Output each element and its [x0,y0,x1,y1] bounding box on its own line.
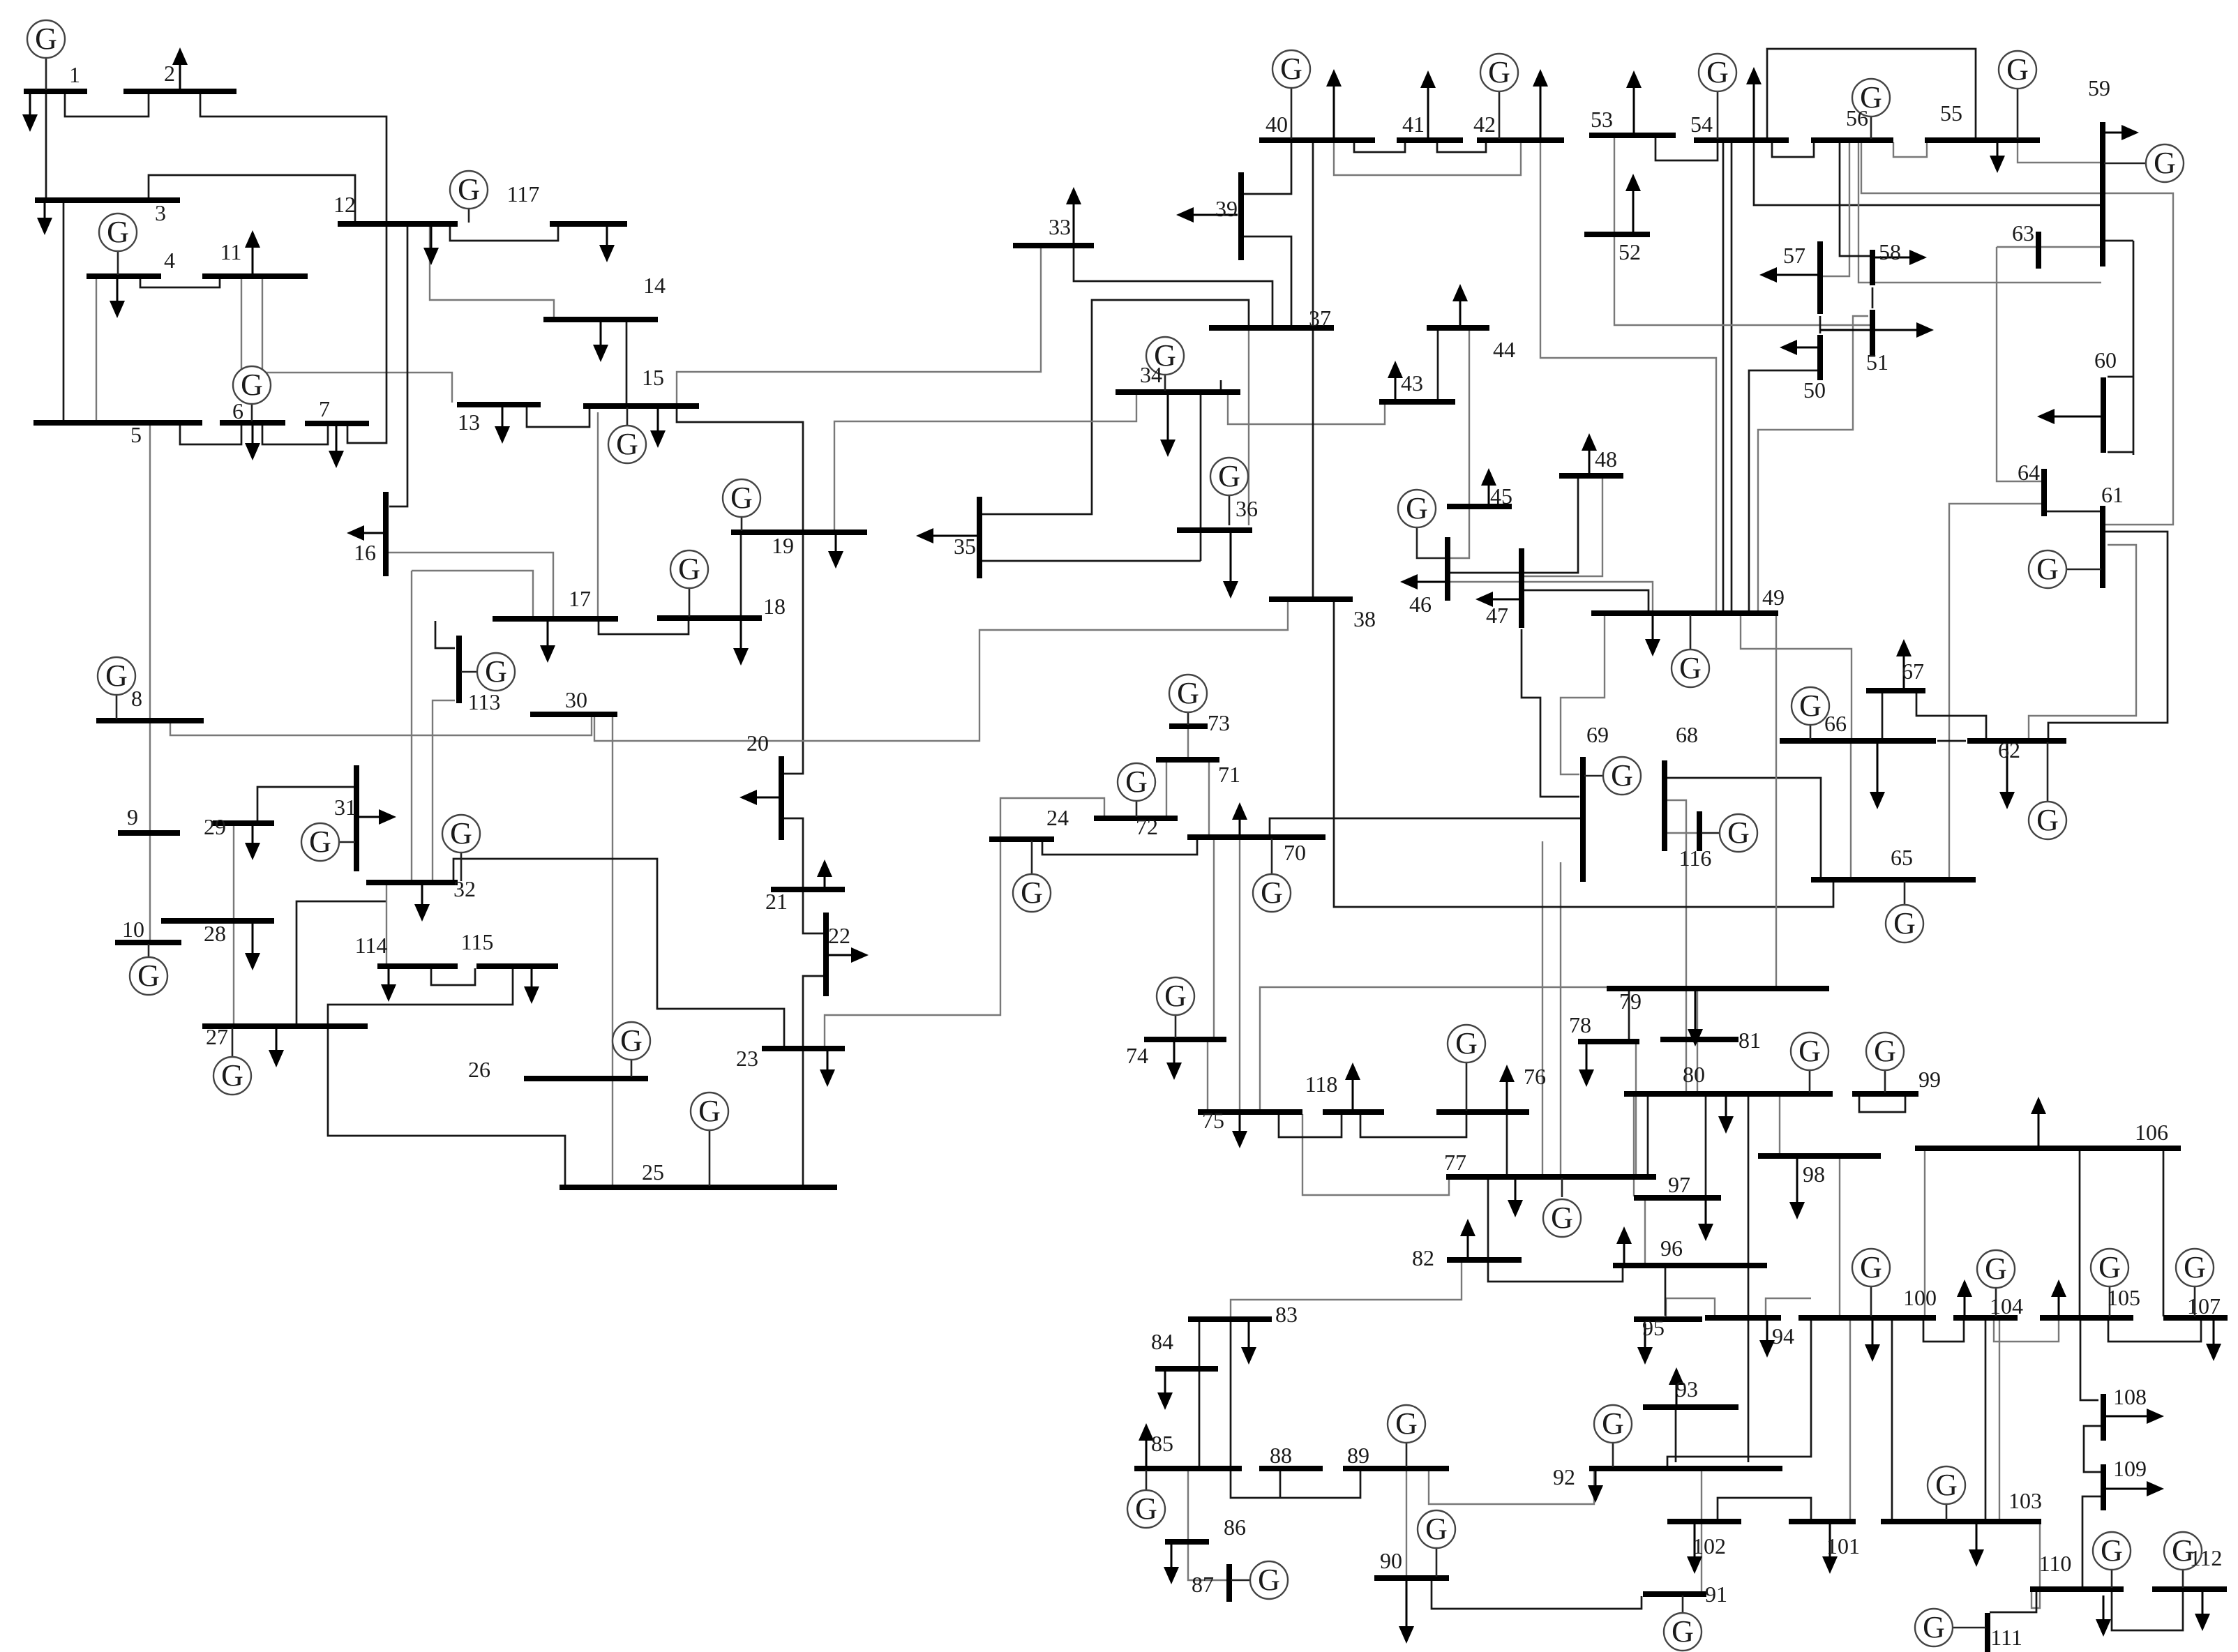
bus 113 [456,636,462,703]
wire 34-36 [1200,394,1202,561]
svg-text:G: G [1985,1252,2007,1286]
bus 65 [1811,877,1976,883]
generator G111 [1915,1609,1985,1646]
generator G25 [691,1092,728,1186]
svg-text:74: 74 [1126,1043,1148,1068]
wire 82-96 [1488,1263,1623,1282]
svg-text:53: 53 [1591,107,1613,132]
wire 56-57 [1822,142,1849,276]
wire 105-106 [2079,1150,2081,1316]
load arrow bus 51 [1820,329,1916,331]
wire 48-49 [1524,477,1602,576]
bus 62 [1967,738,2066,744]
svg-text:G: G [2184,1250,2206,1284]
generator G15 [608,407,646,463]
load arrow bus 77 [1515,1179,1517,1200]
bus 117 [550,221,627,227]
load arrow bus 6 [252,425,254,443]
wire 34-37b [1220,380,1222,392]
svg-text:69: 69 [1586,722,1609,747]
wire 95-96 [1665,1268,1667,1316]
generator G85 [1127,1470,1165,1528]
wire 78-79 [1628,991,1630,1040]
svg-text:60: 60 [2094,347,2117,373]
bus 17 [493,616,618,622]
generator G65 [1886,881,1923,943]
wire 70-75 [1239,839,1240,1111]
bus 115 [476,963,558,969]
wire 56-59a [1861,142,2173,525]
wire 44-45 [1469,330,1470,505]
load arrow bus 109 [2106,1488,2147,1490]
svg-text:G: G [1258,1563,1280,1597]
wire 105-108 [2080,1320,2098,1400]
svg-text:71: 71 [1218,762,1240,787]
svg-text:G: G [1874,1034,1896,1068]
wire 105-107 [2108,1320,2201,1342]
wire 25-27 [328,1028,565,1186]
wire 1-3 [45,93,47,199]
wire 68-81 [1666,800,1686,1037]
bus 86 [1165,1539,1209,1545]
wire 100-106 [1924,1150,1925,1316]
generator G36 [1210,458,1248,525]
svg-text:G: G [1455,1026,1478,1060]
generator G107 [2176,1249,2214,1316]
wire 17-x [412,571,533,617]
svg-text:88: 88 [1270,1443,1292,1468]
wire 61-62b [2048,532,2168,739]
bus 105 [2040,1315,2133,1321]
svg-text:10: 10 [122,917,144,942]
load arrow bus 36 [1230,532,1232,581]
svg-text:G: G [1125,765,1148,799]
load arrow bus 1 [29,93,31,114]
bus 66 [1780,738,1936,744]
bus 92 [1589,1466,1782,1471]
load arrow bus 46 [1418,581,1445,583]
load arrow bus 95 [1644,1323,1646,1347]
load arrow bus 92 [1595,1471,1597,1485]
svg-text:90: 90 [1380,1548,1402,1573]
svg-text:20: 20 [746,730,769,756]
wire 63-59 [1997,246,2101,248]
generator G76 [1448,1025,1485,1111]
svg-text:G: G [1164,979,1187,1013]
svg-text:116: 116 [1679,846,1712,871]
wire 2-12 [200,93,386,223]
svg-text:40: 40 [1266,112,1288,137]
bus 74 [1144,1037,1226,1042]
bus 116 [1697,811,1702,851]
load arrow bus 40 [1333,87,1335,138]
generator G32 [442,815,480,881]
bus 99 [1852,1091,1918,1097]
wire 17-113 [435,621,455,648]
wire 92-100 [1667,1320,1811,1466]
wire 49-51 [1758,316,1868,610]
load arrow bus 104 [1964,1297,1966,1316]
wire 63-64 [1997,247,2041,481]
load arrow bus 13 [502,406,504,426]
wire 33-37 [1074,248,1272,325]
bus 78 [1578,1039,1639,1044]
svg-text:2: 2 [164,61,175,86]
bus 108 [2101,1394,2106,1441]
bus 22 [823,913,829,996]
bus 15 [583,403,699,409]
svg-text:99: 99 [1918,1067,1941,1092]
bus 14 [543,317,658,322]
svg-text:G: G [678,552,700,586]
svg-text:52: 52 [1619,239,1641,264]
wire 82-83 [1231,1263,1462,1318]
wire 36-37 [1248,330,1249,525]
svg-text:98: 98 [1803,1162,1825,1187]
wire 62-66 [1937,740,1966,742]
wire 21-22 [803,892,824,933]
svg-text:81: 81 [1738,1028,1761,1053]
wire 37-39 [1242,236,1291,326]
svg-text:24: 24 [1046,805,1069,830]
wire 57-50 [1819,316,1822,333]
svg-text:G: G [1860,1250,1882,1284]
load arrow bus 48 [1589,451,1591,474]
bus 76 [1436,1109,1529,1115]
svg-text:102: 102 [1692,1533,1726,1559]
bus 7 [305,421,369,426]
bus 28 [161,918,274,924]
svg-text:109: 109 [2113,1456,2147,1481]
load arrow bus 82 [1467,1236,1469,1259]
load arrow bus 118 [1352,1080,1354,1110]
generator G26 [613,1022,650,1077]
svg-text:G: G [450,816,472,850]
wire 3-5 [63,202,65,421]
svg-text:39: 39 [1215,196,1238,221]
svg-text:25: 25 [642,1159,664,1185]
wire 46-49 [1449,582,1653,612]
wire 26-30 [612,716,613,1186]
svg-text:3: 3 [155,200,166,225]
bus 67 [1866,688,1925,693]
svg-text:G: G [105,659,128,693]
svg-text:29: 29 [204,814,226,839]
svg-text:27: 27 [206,1024,228,1049]
svg-text:22: 22 [828,923,850,948]
wire 17-18 [599,620,689,634]
generator G49 [1672,615,1709,687]
wire 90-91 [1432,1580,1642,1609]
wire 104-103b [1999,1320,2000,1520]
generator G12 [450,171,488,223]
bus 85 [1134,1466,1242,1471]
wire 114-115 [431,968,475,985]
generator G31 [301,823,355,861]
bus 95 [1634,1316,1702,1322]
generator G55 [1999,51,2036,139]
wire 83-88 [1231,1321,1360,1498]
bus 51 [1870,310,1875,356]
svg-text:G: G [485,654,507,689]
svg-text:114: 114 [355,933,388,958]
wire 106-107 [2163,1150,2165,1316]
wire 49-75 [1260,615,1776,1111]
wire 84-85 [1199,1371,1201,1466]
wire 69-77b [1560,862,1561,1176]
wire 12-117 [450,226,558,241]
wire 113-32 [433,700,455,881]
bus 107 [2163,1315,2228,1321]
bus 36 [1177,527,1252,533]
load arrow bus 28 [252,923,254,953]
svg-text:65: 65 [1891,845,1913,870]
bus 43 [1379,399,1455,405]
wire 100-101 [1849,1320,1851,1520]
load arrow bus 15 [657,408,659,430]
bus 37 [1209,325,1334,331]
wire 49-66a [1741,610,1852,738]
wire 19-20 [783,534,803,774]
wire 61-62a [2029,545,2136,739]
bus 45 [1447,504,1512,509]
svg-text:G: G [1798,1034,1821,1068]
wire 69-77a [1542,841,1543,1176]
svg-text:46: 46 [1409,592,1432,617]
bus 39 [1238,172,1244,260]
bus 27 [202,1023,368,1029]
bus 77 [1446,1174,1656,1180]
wire 23-25 [802,1051,804,1186]
load arrow bus 106 [2038,1114,2040,1146]
svg-text:G: G [1425,1512,1448,1546]
wire 14-15 [626,322,628,405]
generator G104 [1977,1250,2015,1316]
wire 76-77 [1506,1114,1508,1176]
svg-text:21: 21 [765,889,788,914]
svg-text:79: 79 [1619,989,1642,1014]
wire 88-89 [1279,1471,1282,1498]
wire 38-65 [1334,601,1833,907]
svg-text:106: 106 [2135,1120,2168,1145]
svg-text:26: 26 [468,1057,490,1082]
load arrow bus 107 [2213,1320,2215,1344]
svg-text:G: G [1406,491,1428,525]
load arrow bus 112 [2202,1591,2204,1614]
bus 63 [2036,232,2041,269]
svg-text:G: G [1135,1492,1157,1526]
bus 110 [2030,1586,2124,1592]
wire 20-21 [783,818,803,887]
bus 112 [2152,1586,2227,1592]
wire 92-93 [1675,1409,1677,1462]
bus 91 [1643,1591,1706,1597]
wire 91-92 [1701,1471,1702,1593]
svg-text:48: 48 [1595,446,1617,472]
load arrow bus 100 [1872,1320,1874,1344]
bus 29 [213,820,274,826]
svg-text:47: 47 [1486,603,1508,628]
bus 98 [1758,1153,1881,1159]
wire 70-71 [1208,762,1210,835]
svg-text:1: 1 [69,62,80,87]
wire 109-110 [2082,1496,2102,1588]
wire 75-118 [1279,1114,1342,1137]
svg-text:35: 35 [954,534,976,559]
svg-text:62: 62 [1998,737,2020,763]
wire 83-84 [1199,1321,1201,1367]
wire 66-67 [1882,692,1884,739]
wire 5-8 [149,425,151,719]
wire 60tap [2108,376,2133,378]
generator G69 [1584,757,1641,795]
svg-text:118: 118 [1305,1072,1338,1097]
wire 100-104 [1923,1320,1964,1342]
bus 9 [118,830,180,836]
bus 103 [1881,1519,2041,1524]
svg-text:G: G [1611,758,1633,793]
svg-text:G: G [616,427,638,461]
wire 64-61 [2046,511,2101,513]
wire 77-82 [1487,1178,1489,1260]
svg-text:18: 18 [763,594,786,619]
load arrow bus 7 [336,426,338,451]
svg-text:58: 58 [1879,239,1901,264]
wire 101-102 [1718,1498,1811,1524]
bus 75 [1198,1109,1302,1115]
load arrow bus 47 [1493,599,1520,601]
load arrow bus 76 [1506,1082,1508,1110]
generator G18 [670,550,708,617]
load arrow bus 83 [1248,1321,1250,1347]
load arrow bus 55 [1997,142,1999,156]
bus 57 [1817,241,1823,314]
wire 56-58 [1840,142,1870,256]
wire 17-32 [411,571,412,881]
wire 58-51 [1872,287,1874,308]
load arrow bus 53 [1633,88,1635,133]
svg-text:117: 117 [507,181,540,206]
bus 52 [1584,232,1650,237]
svg-text:G: G [35,22,57,56]
svg-text:73: 73 [1208,710,1230,735]
load arrow bus 34 [1167,394,1169,440]
load arrow bus 14 [600,322,602,345]
svg-text:96: 96 [1660,1236,1683,1261]
wire 100-103 [1891,1320,1893,1520]
svg-text:32: 32 [453,876,476,901]
wire 65-68 [1666,778,1821,878]
bus 40 [1259,137,1375,143]
load arrow bus 117 [606,226,608,245]
svg-text:34: 34 [1140,362,1162,387]
svg-text:85: 85 [1151,1431,1173,1456]
svg-text:G: G [2154,146,2176,180]
load arrow bus 22 [828,954,851,956]
wire 32-114 [386,885,387,965]
load arrow bus 80 [1725,1096,1727,1116]
load arrow bus 21 [824,877,826,887]
bus 90 [1374,1575,1449,1581]
bus 18 [657,615,762,621]
svg-text:G: G [309,825,331,859]
bus 35 [977,497,982,578]
svg-text:G: G [1602,1406,1624,1441]
svg-text:92: 92 [1553,1464,1575,1489]
load arrow bus 101 [1829,1524,1831,1556]
svg-text:G: G [1395,1406,1418,1441]
wire 47-49 [1523,590,1649,610]
svg-text:86: 86 [1224,1515,1246,1540]
wire 110-112 [2112,1591,2183,1630]
svg-text:95: 95 [1642,1315,1665,1340]
svg-text:100: 100 [1903,1285,1937,1310]
wire 49-54b [1731,142,1733,612]
generator G54 [1699,54,1736,139]
bus 19 [731,530,867,535]
wire 24-72 [1000,798,1104,837]
generator G87 [1231,1561,1288,1599]
wire 74-75 [1207,1042,1208,1111]
svg-text:G: G [1727,816,1750,850]
svg-text:14: 14 [643,273,666,298]
load arrow bus 2 [179,65,181,89]
svg-text:45: 45 [1490,483,1512,509]
generator G46 [1398,490,1445,558]
generator G62 [2029,742,2066,839]
wire 39-40 [1242,142,1291,194]
wire 3-12 [149,175,355,223]
load arrow bus 57 [1777,274,1819,276]
wire 80-97b [1633,1096,1635,1196]
bus 34 [1116,389,1240,395]
load arrow bus 39 [1194,214,1238,216]
generator G19 [723,479,760,531]
wire 85-86 [1187,1471,1189,1540]
bus 102 [1667,1519,1741,1524]
svg-text:4: 4 [164,248,175,273]
wire 55-56 [1893,142,1927,157]
generator G105 [2091,1249,2128,1316]
bus 48 [1559,473,1623,479]
load arrow bus 79 [1695,991,1697,1029]
wire 24-70 [1042,836,1197,855]
svg-text:72: 72 [1136,814,1158,839]
wire 108-109 [2084,1426,2102,1472]
wire 12-14 [430,226,554,318]
bus 3 [35,197,180,203]
bus 106 [1915,1146,2181,1151]
wire 56-59b [1858,142,2101,283]
wire 15-19 [677,407,803,531]
bus 89 [1343,1466,1449,1471]
svg-text:77: 77 [1444,1150,1466,1175]
bus 8 [96,718,204,723]
svg-text:G: G [1261,876,1283,910]
wire 22-23 [803,976,826,1047]
bus 54 [1694,137,1789,143]
generator G27 [213,1028,251,1095]
load arrow bus 75 [1239,1114,1241,1131]
wire 59tap [2104,240,2133,242]
load arrow bus 66 [1877,743,1879,792]
wire 61tap [2108,451,2133,453]
svg-text:67: 67 [1902,659,1924,684]
bus 80 [1624,1091,1833,1097]
wire 18-19 [740,534,742,617]
wire 23-24 [825,841,1000,1047]
wire 12-16 [389,225,407,506]
